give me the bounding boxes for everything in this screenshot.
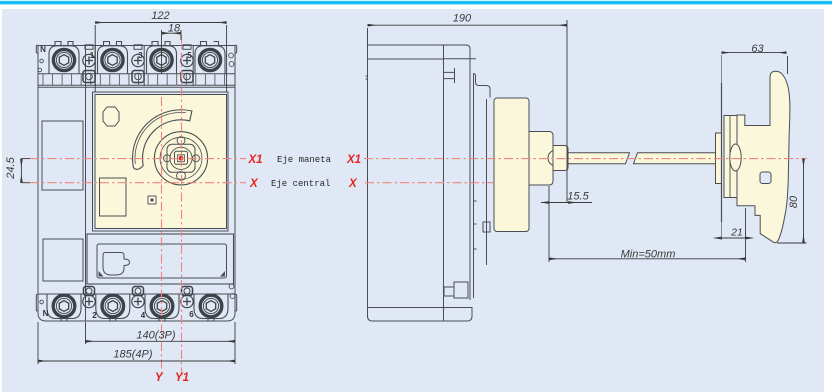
svg-text:80: 80 <box>788 195 800 208</box>
svg-text:122: 122 <box>151 10 169 22</box>
svg-text:190: 190 <box>453 13 472 25</box>
svg-text:15.5: 15.5 <box>567 191 589 203</box>
svg-text:2: 2 <box>92 311 97 320</box>
svg-text:Min=50mm: Min=50mm <box>621 248 676 260</box>
svg-text:Y: Y <box>155 372 164 384</box>
svg-text:6: 6 <box>189 310 194 319</box>
svg-text:Y1: Y1 <box>175 372 189 384</box>
svg-text:5: 5 <box>187 51 192 60</box>
svg-text:24.5: 24.5 <box>5 156 17 179</box>
svg-text:N: N <box>40 45 46 54</box>
svg-text:3: 3 <box>138 51 143 60</box>
svg-text:140(3P): 140(3P) <box>136 330 175 342</box>
svg-text:185(4P): 185(4P) <box>113 349 152 361</box>
svg-text:N: N <box>43 309 49 318</box>
svg-text:X1: X1 <box>346 154 361 166</box>
svg-text:Eje central: Eje central <box>271 179 330 189</box>
svg-text:18: 18 <box>168 23 181 35</box>
svg-text:1: 1 <box>90 51 95 60</box>
svg-text:4: 4 <box>141 311 146 320</box>
svg-text:X: X <box>249 178 259 190</box>
svg-text:63: 63 <box>751 43 764 55</box>
svg-text:X: X <box>348 178 358 190</box>
svg-text:21: 21 <box>730 227 743 239</box>
svg-text:X1: X1 <box>248 154 263 166</box>
svg-text:Eje maneta: Eje maneta <box>277 155 332 165</box>
